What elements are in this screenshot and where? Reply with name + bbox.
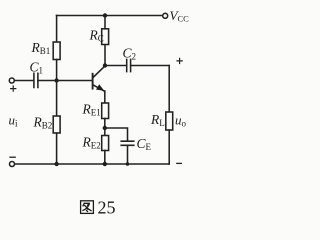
transistor Q1 emitter lead with arrow — [93, 85, 105, 92]
svg-text:RB2: RB2 — [33, 115, 53, 131]
wire collector to C2 — [105, 65, 127, 67]
wire base node to transistor base — [57, 80, 92, 82]
capacitor CE — [121, 141, 134, 145]
capacitor C1 — [34, 73, 38, 87]
wire left column upper (rail to RB1) — [56, 16, 58, 43]
wire RL to ground rail — [168, 130, 170, 164]
svg-text:C1: C1 — [30, 60, 44, 76]
svg-text:RE1: RE1 — [82, 102, 101, 118]
terminal VCC (open circle) — [163, 13, 168, 18]
transistor Q1 collector lead — [93, 66, 105, 77]
resistor RE2 — [102, 136, 109, 151]
resistor RE1 — [102, 103, 109, 119]
svg-text:RL: RL — [150, 112, 165, 128]
resistor RC — [102, 29, 109, 45]
node collector (junction C2) — [103, 63, 107, 67]
polarity plus sign (output) — [177, 58, 182, 63]
wire base node to RB2 — [56, 81, 58, 117]
wire C1 to base node — [38, 80, 57, 82]
terminal input top (open circle) — [9, 78, 14, 83]
wire RE2 to ground rail — [104, 151, 106, 165]
polarity plus sign (input) — [11, 86, 16, 91]
svg-text:C2: C2 — [123, 46, 137, 62]
wire emitter node to RE2 — [104, 128, 106, 136]
wire RC to top rail — [104, 16, 106, 29]
node top (junction of RC branch and VCC rail) — [103, 13, 107, 17]
node emitter divider (junction RE2 / CE) — [103, 126, 107, 130]
caption character tu (图) — [81, 201, 94, 214]
wire ground rail — [15, 163, 170, 165]
polarity minus sign (input bottom) — [10, 156, 15, 158]
wire top rail — [57, 15, 163, 17]
wire output column down to RL — [168, 66, 170, 113]
svg-text:25: 25 — [98, 198, 116, 218]
resistor RB1 — [53, 42, 60, 60]
svg-text:CE: CE — [137, 136, 152, 152]
wire C2 to output column — [131, 65, 170, 67]
svg-text:RE2: RE2 — [82, 135, 101, 151]
node CE-ground junction — [126, 162, 130, 166]
polarity minus sign (output bottom) — [177, 162, 182, 164]
svg-text:uo: uo — [175, 113, 187, 129]
wire RB1 to base node — [56, 60, 58, 81]
resistor RL — [166, 112, 173, 130]
wire emitter to RE1 — [104, 91, 106, 103]
node RE2-ground junction — [103, 162, 107, 166]
wire input to C1 — [14, 80, 33, 82]
wire emitter node to CE branch — [105, 128, 128, 141]
node base (junction C1 / RB1 / RB2 / base) — [54, 78, 58, 82]
capacitor C2 — [127, 59, 131, 71]
svg-text:VCC: VCC — [170, 8, 190, 24]
resistor RB2 — [53, 116, 60, 133]
wire collector node to RC — [104, 45, 106, 66]
transistor Q1 base bar — [92, 74, 94, 89]
node RB2-ground junction — [54, 162, 58, 166]
svg-text:RB1: RB1 — [31, 40, 51, 56]
wire CE to ground rail — [127, 145, 129, 164]
wire RE1 to emitter node — [104, 119, 106, 129]
wire RB2 to ground rail — [56, 133, 58, 164]
terminal input bottom (open circle) — [10, 162, 15, 167]
svg-text:ui: ui — [9, 113, 19, 129]
